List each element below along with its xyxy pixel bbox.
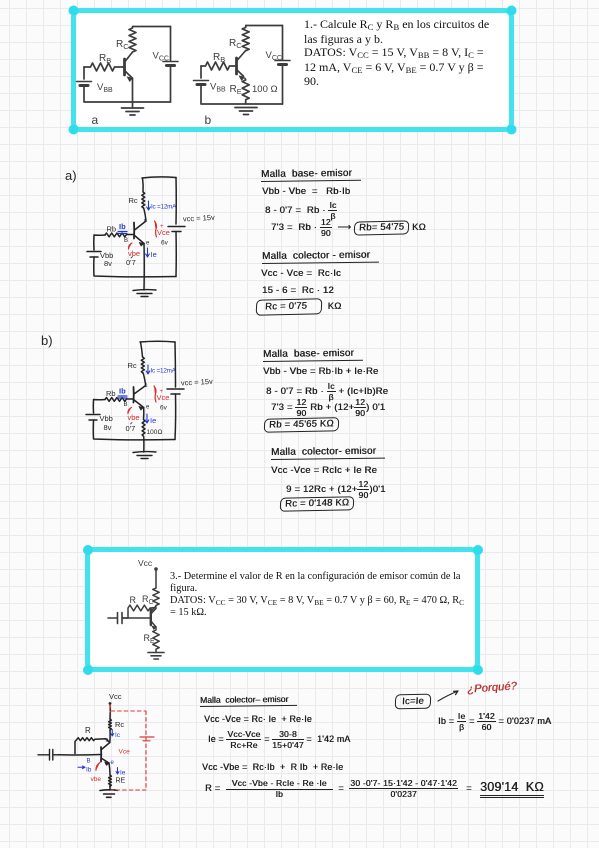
- hand circuit a: wire right lower: [175, 232, 177, 277]
- hand transistor Q (a): base bar: [133, 223, 135, 239]
- label a): [65, 168, 77, 183]
- problem box 2: [85, 547, 480, 672]
- problem 3 text: [170, 571, 490, 619]
- hand battery VBB (b): [86, 414, 113, 432]
- current Ic annotation (b): [146, 365, 176, 375]
- svg-text:b: b: [205, 113, 212, 127]
- circuit a: resistor RC: [116, 27, 136, 53]
- node e (a): [146, 241, 150, 247]
- ground (circuit 3): [148, 653, 164, 660]
- hand transistor Q (bottom): emitter: [101, 758, 109, 766]
- current IB (bottom): [78, 766, 92, 774]
- circuit 3: resistor R: [128, 595, 156, 618]
- battery VBB (circuit b): [194, 81, 227, 94]
- hand circuit b: wire right: [174, 342, 177, 387]
- svg-text:e: e: [146, 241, 150, 247]
- node c (bottom): [106, 738, 109, 744]
- ground (circuit b): [235, 108, 257, 115]
- label Vcc=15V (b): [181, 377, 214, 388]
- svg-text:Ib: Ib: [119, 387, 126, 396]
- svg-text:+: +: [160, 224, 164, 230]
- circuit b: wire right: [282, 26, 284, 61]
- current Ic annotation (a): [147, 201, 177, 211]
- svg-text:Rc: Rc: [129, 196, 138, 205]
- transistor Q (circuit a): [125, 59, 133, 81]
- transistor Q (circuit b): [237, 58, 245, 80]
- circuit 3: resistor RC: [142, 588, 159, 606]
- current IB arrow (a): [118, 222, 127, 234]
- circuit b: resistor RE: [230, 79, 278, 105]
- node c (b): [145, 383, 148, 389]
- svg-text:c: c: [144, 218, 147, 224]
- svg-text:Ic: Ic: [115, 732, 121, 739]
- voltage VCE (bottom): [119, 749, 131, 756]
- hand resistor RE (bottom): [109, 775, 126, 787]
- circuit b: wire top rail: [246, 25, 283, 27]
- hand circuit b: wire to RC: [141, 342, 143, 357]
- hand circuit a: wire collector: [135, 208, 147, 230]
- hand resistor RC (b): [128, 357, 145, 373]
- circuit 3: wire from Vcc: [155, 569, 157, 588]
- hand circuit b: wire RE to ground: [143, 438, 145, 453]
- current IE (bottom): [116, 768, 126, 777]
- svg-text:a: a: [92, 113, 99, 127]
- bottom circuit: wire RE to ground: [109, 786, 111, 791]
- KVL red dashed loop (bottom): [110, 705, 146, 791]
- hand circuit b: wire top rail: [140, 340, 175, 343]
- svg-text:RC: RC: [116, 39, 129, 51]
- voltage VCE annotation (b): [154, 386, 169, 402]
- svg-text:RB: RB: [213, 52, 225, 64]
- svg-text:Vcc: Vcc: [138, 558, 153, 568]
- label 0'7 (a): [126, 257, 136, 268]
- svg-text:e: e: [146, 405, 150, 411]
- svg-text:vcc = 15v: vcc = 15v: [183, 213, 216, 224]
- circuit 3: wire base: [122, 617, 151, 619]
- circuit a: wire right-bottom: [170, 66, 172, 103]
- capacitor (bottom): [38, 750, 58, 761]
- voltage VBE annotation (a): [128, 243, 140, 258]
- hand resistor RB (a): [105, 225, 126, 237]
- ground (hand a): [133, 290, 156, 297]
- hand battery VCC (a): [168, 227, 185, 232]
- hand circuit a: wire to RC: [142, 178, 145, 192]
- circuit a: wire emitter down: [132, 78, 134, 108]
- svg-text:100Ω: 100Ω: [147, 429, 163, 436]
- label 6v (b): [160, 405, 168, 412]
- svg-text:vcc = 15v: vcc = 15v: [181, 377, 214, 388]
- cyan corner dots box 2: [83, 545, 483, 675]
- svg-text:B: B: [87, 759, 91, 765]
- hand battery VBB (a): [87, 251, 113, 268]
- equations section a: [261, 169, 361, 182]
- svg-text:100 Ω: 100 Ω: [252, 84, 278, 95]
- svg-text:6v: 6v: [161, 240, 169, 247]
- current Ic (bottom): [111, 730, 121, 740]
- svg-text:c: c: [145, 383, 148, 389]
- circuit a: wire top rail: [133, 26, 171, 28]
- circuit a: wire left-bottom: [84, 86, 171, 103]
- circuit b: resistor RB: [201, 52, 237, 70]
- svg-text:6v: 6v: [160, 405, 168, 412]
- svg-text:Vcc: Vcc: [109, 692, 122, 701]
- problem box 1: [71, 8, 514, 132]
- hand circuit b: wire left: [93, 400, 105, 414]
- node B (b): [124, 402, 128, 408]
- circuit b: wire left-bottom: [201, 85, 283, 105]
- red loop battery mark: [140, 737, 154, 741]
- svg-text:0'7: 0'7: [126, 424, 136, 433]
- circuit a: wire right: [170, 27, 172, 62]
- circuit 3: Vcc label: [138, 558, 153, 568]
- problem 1 text: [304, 18, 504, 89]
- circuit b: wire right-bottom: [282, 65, 284, 105]
- circuit a: wire collector: [125, 52, 133, 62]
- voltage VBE (bottom): [91, 763, 102, 784]
- hand resistor RC (bottom): [109, 719, 125, 730]
- arrow from Ic=IE box to Porque: [438, 691, 458, 701]
- svg-text:Rb: Rb: [106, 389, 116, 398]
- svg-text:VBB: VBB: [97, 82, 113, 94]
- label Vcc=15V (a): [183, 213, 216, 224]
- circuit b: wire collector: [237, 51, 246, 61]
- equations section b: [263, 349, 363, 362]
- svg-text:a): a): [65, 168, 77, 183]
- svg-text:0'7: 0'7: [126, 258, 136, 267]
- hand circuit a: wire left-bottom rail: [94, 257, 176, 277]
- hand circuit a: wire top rail: [142, 177, 176, 178]
- svg-text:vbe: vbe: [128, 413, 140, 422]
- label b: [205, 113, 212, 127]
- svg-text:b): b): [41, 333, 53, 348]
- current IE annotation (b): [145, 414, 156, 425]
- svg-text:Ic =12mA: Ic =12mA: [151, 368, 177, 375]
- svg-text:8v: 8v: [104, 259, 112, 268]
- svg-text:+: +: [160, 389, 164, 395]
- svg-text:Ib: Ib: [119, 222, 126, 231]
- svg-text:e: e: [111, 760, 115, 766]
- current IB arrow (b): [118, 387, 127, 399]
- svg-text:R: R: [130, 595, 137, 605]
- hand circuit b: wire collector: [134, 373, 146, 394]
- svg-text:VBB: VBB: [210, 82, 226, 94]
- svg-text:VCC: VCC: [266, 50, 282, 62]
- svg-text:B: B: [124, 238, 128, 244]
- hand circuit b: wire base: [127, 398, 134, 400]
- hand resistor RE (b): [142, 420, 162, 437]
- svg-text:Ie: Ie: [150, 416, 156, 425]
- ground (hand b): [133, 452, 156, 459]
- hand resistor RB (b): [105, 389, 126, 401]
- circuit 3: node dot: [154, 567, 158, 571]
- svg-text:Ie: Ie: [120, 770, 126, 777]
- capacitor C (circuit 3): [108, 613, 128, 624]
- node B (bottom): [87, 759, 91, 765]
- voltage VBE annotation (b): [128, 408, 140, 423]
- label b): [41, 333, 53, 348]
- node c (a): [144, 218, 147, 224]
- battery VCC (circuit a): [153, 51, 179, 66]
- bottom circuit: Vcc label: [109, 692, 122, 701]
- label 0'7 (b): [126, 423, 136, 434]
- battery VBB (circuit a): [77, 82, 114, 95]
- circuit b: resistor RC: [229, 26, 249, 51]
- circuit a: wire left: [83, 67, 85, 79]
- svg-text:RE: RE: [230, 84, 242, 96]
- bottom circuit: wire from Vcc: [109, 702, 112, 719]
- svg-text:B: B: [124, 402, 128, 408]
- svg-text:Rc: Rc: [128, 361, 137, 370]
- ground (circuit a): [122, 108, 144, 115]
- label 6v (a): [161, 240, 169, 247]
- svg-text:RC: RC: [142, 594, 154, 606]
- bottom equations: [200, 695, 297, 707]
- ground (bottom): [100, 790, 118, 798]
- svg-text:Ic =12mA: Ic =12mA: [151, 204, 177, 211]
- svg-text:8v: 8v: [104, 423, 112, 432]
- svg-text:Ib: Ib: [86, 767, 92, 774]
- hand circuit a: wire base: [127, 234, 134, 236]
- hand circuit b: wire left-bottom rail: [93, 420, 175, 440]
- node B (a): [124, 238, 128, 244]
- hand circuit b: wire right lower: [174, 394, 177, 440]
- hand resistor R (bottom): [75, 726, 110, 754]
- circuit 3: wire collector: [152, 606, 157, 611]
- svg-text:Ie: Ie: [151, 250, 157, 259]
- node e (b): [146, 405, 150, 411]
- hand circuit a: wire left: [94, 235, 105, 250]
- svg-text:Rb: Rb: [107, 225, 117, 234]
- svg-text:RC: RC: [229, 38, 242, 50]
- label a: [92, 113, 99, 127]
- hand transistor Q (b): base bar: [133, 387, 135, 403]
- hand transistor Q (a): emitter: [134, 235, 144, 246]
- svg-text:RE: RE: [144, 633, 156, 645]
- svg-text:R: R: [85, 726, 91, 735]
- hand circuit b: wire emitter to RE: [143, 408, 145, 420]
- current IE annotation (a): [146, 248, 157, 259]
- transistor Q (circuit 3): [151, 609, 156, 630]
- hand circuit a: wire emitter down: [143, 244, 145, 291]
- hand transistor Q (bottom): base bar: [100, 747, 102, 762]
- hand resistor RC (a): [129, 192, 145, 208]
- hand battery VCC (b): [167, 389, 184, 394]
- svg-text:Rc: Rc: [115, 720, 124, 729]
- circuit 3: resistor RE: [144, 627, 160, 652]
- svg-text:RE: RE: [116, 778, 126, 785]
- circuit b: wire left: [200, 66, 202, 78]
- battery VCC (circuit b): [266, 50, 291, 65]
- bottom circuit: wire collector: [102, 730, 111, 750]
- voltage VCE annotation (a): [155, 221, 170, 237]
- svg-text:Vbb: Vbb: [100, 414, 113, 423]
- svg-text:vbe: vbe: [91, 776, 102, 783]
- bottom circuit: wire input to base: [58, 754, 101, 756]
- svg-text:RB: RB: [99, 53, 111, 65]
- cyan corner dots box 1: [69, 6, 517, 135]
- circuit a: resistor RB: [84, 53, 125, 71]
- hand circuit a: wire right: [175, 178, 177, 225]
- hand transistor Q (b): emitter: [134, 400, 144, 411]
- svg-text:VCC: VCC: [153, 51, 169, 63]
- svg-text:vbe: vbe: [128, 249, 140, 258]
- node e (bottom): [111, 760, 115, 766]
- svg-text:Vce: Vce: [119, 749, 131, 756]
- bottom circuit: wire emitter to RE: [109, 763, 110, 775]
